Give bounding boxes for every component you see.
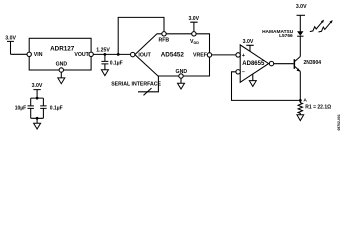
pin RFB [162, 32, 166, 36]
svg-text:3.0V: 3.0V [296, 4, 307, 10]
svg-text:AD8655: AD8655 [242, 61, 265, 67]
svg-text:0.1µF: 0.1µF [110, 60, 123, 66]
power rail 3.0V at ADR127 VIN [5, 36, 16, 55]
ground at AD8655 [249, 74, 256, 86]
pin VREF [207, 53, 211, 57]
pin VDD [192, 32, 196, 36]
capacitor 0.1uF on 1.25V rail [101, 54, 122, 69]
ground at decoupling [34, 118, 41, 129]
wire VIN [11, 53, 27, 55]
svg-text:1.25V: 1.25V [96, 48, 110, 54]
wire decoupling rails [31, 98, 44, 118]
pin IOUT [131, 52, 135, 56]
node dot at C2 [104, 53, 107, 56]
svg-text:DD: DD [194, 41, 200, 45]
capacitor 0.1uF supply [40, 98, 62, 118]
DAC AD5452 [135, 34, 210, 76]
LED Hamamatsu L5766 [262, 15, 303, 39]
op-amp AD8655 [240, 45, 268, 82]
pin GND [59, 68, 63, 72]
svg-text:−: − [242, 70, 245, 76]
power rail 3.0V at supply decoupling [32, 83, 43, 98]
serial interface label and bus line [111, 76, 161, 95]
svg-text:RFB: RFB [158, 38, 169, 44]
resistor R1 22.1 ohm [298, 100, 331, 114]
svg-text:10µF: 10µF [15, 106, 27, 112]
svg-text:R1 = 22.1Ω: R1 = 22.1Ω [305, 105, 331, 111]
wire RFB feedback loop [118, 17, 164, 54]
ground at R1 [297, 115, 304, 121]
ground at C2 [101, 70, 108, 76]
wire VREF to op-amp + input [212, 54, 236, 56]
ground at AD5452 GND [178, 78, 185, 89]
svg-text:2N3904: 2N3904 [304, 60, 322, 66]
pin - input [236, 70, 240, 74]
pin + input [236, 53, 240, 57]
capacitor 10uF supply [15, 98, 34, 118]
svg-text:VOUT: VOUT [74, 52, 89, 58]
power rail 3.0V at LED [296, 4, 307, 16]
svg-text:L5766: L5766 [279, 33, 293, 39]
svg-text:3.0V: 3.0V [243, 39, 254, 45]
svg-text:A: A [303, 98, 307, 104]
wire feedback from node A to - input [232, 72, 299, 101]
pin output [269, 61, 273, 65]
svg-text:3.0V: 3.0V [32, 83, 43, 89]
light emission arrows [310, 20, 333, 32]
wire 1.25V rail VOUT to IOUT [93, 48, 130, 55]
node A [299, 98, 308, 104]
power rail 3.0V at AD8655 [243, 39, 254, 52]
ground at ADR127 GND [58, 72, 65, 84]
wire op-amp output to transistor base [274, 63, 294, 65]
svg-text:VREF: VREF [193, 53, 207, 59]
svg-text:08702-001: 08702-001 [337, 114, 341, 130]
node dot at RFB loop [117, 53, 120, 56]
wire collector up [299, 37, 301, 57]
pin VIN [27, 52, 31, 56]
svg-text:3.0V: 3.0V [5, 36, 16, 42]
pin GND AD5452 [179, 74, 183, 78]
pin VOUT [89, 52, 93, 56]
svg-text:SERIAL INTERFACE: SERIAL INTERFACE [111, 82, 161, 88]
svg-text:GND: GND [56, 61, 68, 67]
svg-text:IOUT: IOUT [138, 52, 151, 58]
power rail 3.0V at AD5452 VDD [188, 16, 199, 32]
voltage reference ADR127 [29, 38, 91, 70]
transistor Q1 2N3904 [294, 57, 322, 72]
svg-text:AD5452: AD5452 [161, 51, 185, 58]
wire emitter down to node A [299, 71, 301, 100]
svg-text:VIN: VIN [34, 52, 43, 58]
svg-text:ADR127: ADR127 [50, 45, 75, 52]
svg-text:0.1µF: 0.1µF [50, 106, 63, 112]
node dots [36, 97, 39, 100]
svg-text:3.0V: 3.0V [188, 16, 199, 22]
